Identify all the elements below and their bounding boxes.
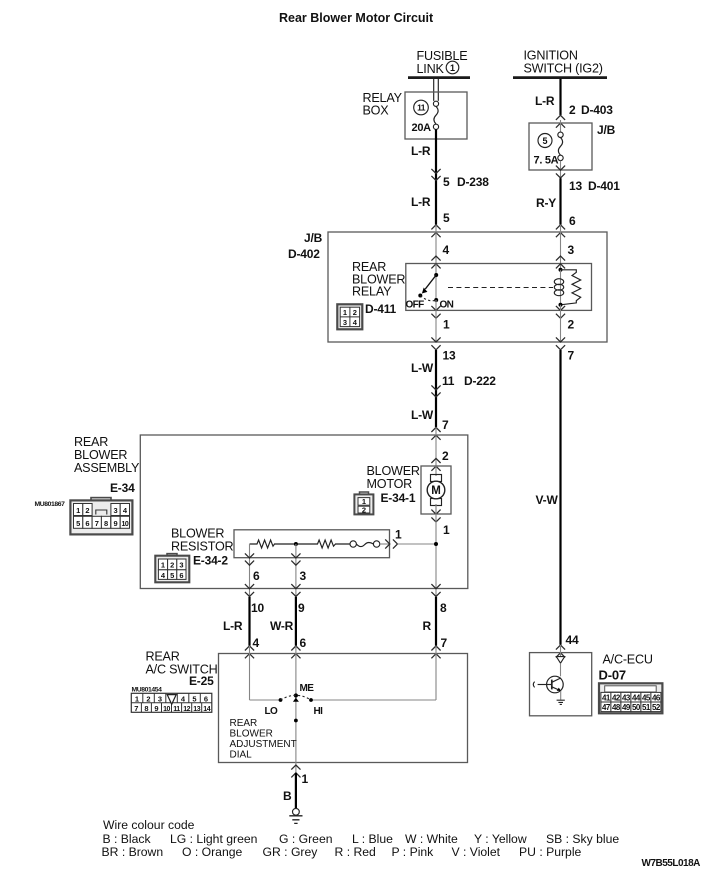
- wire resistor pin6 stub: [249, 544, 251, 597]
- svg-text:E-34-2: E-34-2: [193, 554, 228, 568]
- svg-text:D-401: D-401: [588, 179, 620, 193]
- wire R to A/C switch: [423, 597, 448, 650]
- thermal fuse: [350, 541, 390, 547]
- svg-text:IGNITION: IGNITION: [524, 49, 578, 63]
- wire L-R ignition to J/B: [535, 79, 613, 117]
- connector D-222 splice chevrons: [431, 385, 440, 397]
- svg-text:ON: ON: [440, 300, 454, 311]
- svg-text:6: 6: [253, 569, 260, 583]
- svg-text:RELAY: RELAY: [352, 285, 392, 299]
- svg-text:1: 1: [135, 694, 139, 703]
- svg-text:SB : Sky blue: SB : Sky blue: [546, 832, 619, 846]
- fuse 5 7.5A: [534, 120, 564, 178]
- svg-text:BOX: BOX: [363, 104, 390, 118]
- svg-text:BLOWER: BLOWER: [74, 448, 127, 462]
- A/C switch entry chevrons: [245, 646, 441, 658]
- relay box outline: [405, 92, 467, 139]
- relay REAR BLOWER RELAY box: [406, 264, 592, 311]
- A/C switch pin1 exit chevrons: [291, 765, 300, 777]
- svg-text:13: 13: [569, 179, 582, 193]
- svg-text:6: 6: [85, 519, 89, 528]
- svg-text:11: 11: [417, 103, 426, 113]
- svg-text:R : Red: R : Red: [335, 845, 376, 859]
- svg-text:7: 7: [95, 519, 99, 528]
- wire resistor output to motor wire: [395, 528, 438, 547]
- svg-text:1: 1: [302, 772, 309, 786]
- svg-text:4: 4: [253, 636, 260, 650]
- connector E-34-2 icon: [155, 554, 189, 583]
- svg-text:9: 9: [114, 519, 118, 528]
- svg-text:10: 10: [122, 521, 129, 528]
- svg-text:L : Blue: L : Blue: [352, 832, 393, 846]
- connector D-238 splice chevrons: [431, 169, 440, 181]
- svg-text:V : Violet: V : Violet: [452, 845, 501, 859]
- svg-text:3: 3: [114, 506, 118, 515]
- svg-text:2: 2: [146, 694, 150, 703]
- svg-text:R-Y: R-Y: [536, 196, 556, 210]
- svg-text:12: 12: [183, 706, 190, 713]
- pin 6 entry chevrons: [556, 225, 565, 237]
- connector D-411 icon: [337, 304, 362, 329]
- svg-text:1: 1: [161, 561, 165, 570]
- svg-text:L-R: L-R: [535, 94, 555, 108]
- svg-text:6: 6: [300, 636, 307, 650]
- assembly exit chevrons pin10 pin9 pin8: [245, 584, 441, 596]
- svg-text:2: 2: [85, 506, 89, 515]
- node REAR BLOWER ADJUSTMENT DIAL: [230, 718, 297, 761]
- connector D-07 icon: [599, 683, 662, 713]
- svg-text:44: 44: [632, 693, 641, 702]
- svg-text:OFF: OFF: [406, 300, 425, 311]
- node RELAY BOX label: [363, 91, 403, 118]
- svg-text:PU : Purple: PU : Purple: [519, 845, 582, 859]
- svg-text:2: 2: [569, 103, 576, 117]
- svg-text:Rear Blower Motor Circuit: Rear Blower Motor Circuit: [279, 11, 434, 25]
- pin 5 entry chevrons: [431, 225, 440, 237]
- svg-text:4: 4: [443, 243, 450, 257]
- svg-text:MU801454: MU801454: [132, 687, 163, 694]
- svg-text:5: 5: [76, 519, 80, 528]
- switch LO ME HI contacts: [265, 683, 324, 722]
- svg-text:Y : Yellow: Y : Yellow: [474, 832, 527, 846]
- motor exit chevrons: [431, 510, 440, 522]
- wire resistor pin3 stub: [294, 542, 298, 597]
- relay coil: [554, 268, 580, 307]
- connector E-25 icon: [131, 693, 212, 713]
- svg-text:E-34-1: E-34-1: [381, 491, 416, 505]
- svg-text:7: 7: [134, 704, 138, 713]
- svg-text:R: R: [423, 619, 432, 633]
- svg-text:2: 2: [362, 505, 366, 514]
- svg-text:L-R: L-R: [411, 144, 431, 158]
- svg-text:6: 6: [569, 214, 576, 228]
- svg-text:10: 10: [163, 706, 170, 713]
- svg-text:BLOWER: BLOWER: [171, 527, 224, 541]
- svg-text:P : Pink: P : Pink: [392, 845, 435, 859]
- motor entry chevrons: [431, 458, 440, 470]
- svg-text:5: 5: [192, 694, 196, 703]
- fuse 11 20A: [412, 100, 439, 134]
- svg-text:G : Green: G : Green: [279, 832, 333, 846]
- svg-text:REAR: REAR: [74, 435, 108, 449]
- wire fusible link double-line: [434, 79, 439, 101]
- resistor output pin1 chevrons: [385, 539, 397, 548]
- svg-text:L-W: L-W: [411, 361, 434, 375]
- resistor R1: [250, 540, 296, 548]
- svg-text:6: 6: [179, 571, 183, 580]
- svg-text:1: 1: [76, 506, 80, 515]
- svg-text:ADJUSTMENT: ADJUSTMENT: [230, 739, 297, 750]
- svg-text:3: 3: [343, 318, 347, 327]
- J/B pin7 exit chevrons: [556, 337, 565, 349]
- svg-text:HI: HI: [314, 706, 324, 717]
- svg-text:O : Orange: O : Orange: [182, 845, 243, 859]
- svg-text:REAR: REAR: [146, 650, 180, 664]
- svg-text:B: B: [283, 789, 292, 803]
- svg-text:1: 1: [443, 523, 450, 537]
- svg-text:E-34: E-34: [110, 481, 135, 495]
- resistor pin3 exit chevrons: [291, 553, 300, 565]
- svg-text:M: M: [431, 485, 441, 497]
- svg-text:13: 13: [193, 706, 200, 713]
- svg-text:FUSIBLE: FUSIBLE: [417, 49, 468, 63]
- svg-text:A/C-ECU: A/C-ECU: [603, 653, 653, 667]
- wire R-Y: [536, 178, 620, 228]
- svg-text:8: 8: [440, 601, 447, 615]
- svg-text:BR : Brown: BR : Brown: [102, 845, 164, 859]
- svg-text:14: 14: [203, 706, 210, 713]
- svg-text:9: 9: [298, 601, 305, 615]
- blower motor M1: [367, 464, 452, 514]
- svg-text:5: 5: [443, 211, 450, 225]
- svg-text:5: 5: [170, 571, 174, 580]
- svg-text:44: 44: [566, 633, 579, 647]
- relay pin2 exit chevrons: [556, 306, 565, 318]
- svg-text:1: 1: [443, 318, 450, 332]
- svg-text:41: 41: [602, 693, 611, 702]
- wire colour code: [102, 818, 620, 859]
- svg-text:42: 42: [612, 693, 621, 702]
- node IGNITION SWITCH (IG2): [513, 49, 607, 78]
- svg-text:D-238: D-238: [457, 175, 489, 189]
- svg-text:20A: 20A: [412, 122, 432, 134]
- REAR BLOWER ASSEMBLY box: [140, 435, 468, 589]
- svg-text:GR : Grey: GR : Grey: [263, 845, 319, 859]
- resistor R2: [296, 540, 350, 548]
- svg-text:49: 49: [622, 703, 631, 712]
- svg-text:11: 11: [442, 374, 455, 388]
- svg-text:3: 3: [158, 694, 162, 703]
- svg-text:ASSEMBLY: ASSEMBLY: [74, 461, 140, 475]
- svg-text:MU801867: MU801867: [35, 501, 66, 508]
- svg-text:E-25: E-25: [189, 674, 214, 688]
- connector D-403 entry chevrons: [556, 115, 565, 127]
- svg-text:L-R: L-R: [223, 619, 243, 633]
- wire L-R from relay box to J/B D-402: [411, 129, 489, 225]
- wire pin3 inside J/B: [561, 225, 575, 270]
- svg-text:2: 2: [170, 561, 174, 570]
- svg-text:51: 51: [642, 703, 651, 712]
- svg-text:L-W: L-W: [411, 408, 434, 422]
- svg-text:D-411: D-411: [365, 302, 397, 316]
- svg-text:11: 11: [173, 706, 180, 713]
- wire to blower motor: [436, 427, 449, 466]
- A/C-ECU entry chevrons pin44: [556, 645, 565, 657]
- svg-text:D-403: D-403: [581, 103, 613, 117]
- svg-text:SWITCH (IG2): SWITCH (IG2): [524, 62, 603, 76]
- svg-text:3: 3: [179, 561, 183, 570]
- svg-text:7. 5A: 7. 5A: [534, 155, 559, 167]
- svg-text:8: 8: [144, 704, 148, 713]
- wire motor pin1 down: [436, 505, 450, 597]
- wire relay pin1 to J/B pin13: [436, 300, 450, 342]
- J/B pin13 exit chevrons: [431, 337, 440, 349]
- A/C-ECU box: [530, 653, 592, 716]
- svg-text:LINK: LINK: [417, 62, 445, 76]
- svg-text:2: 2: [568, 318, 575, 332]
- svg-text:5: 5: [443, 175, 450, 189]
- svg-text:J/B: J/B: [304, 231, 323, 245]
- svg-text:Wire colour code: Wire colour code: [103, 818, 195, 832]
- wire W-R to A/C switch: [270, 597, 307, 650]
- svg-text:W : White: W : White: [405, 832, 458, 846]
- svg-text:1: 1: [343, 308, 347, 317]
- switch wires inside A/C switch: [250, 646, 437, 773]
- svg-text:MOTOR: MOTOR: [367, 477, 413, 491]
- svg-text:7: 7: [568, 349, 575, 363]
- blower resistor box: [234, 530, 390, 558]
- svg-text:7: 7: [442, 418, 449, 432]
- svg-text:2: 2: [353, 308, 357, 317]
- svg-text:3: 3: [568, 243, 575, 257]
- svg-text:BLOWER: BLOWER: [367, 464, 420, 478]
- relay mechanical dashed link: [448, 287, 553, 289]
- resistor pin6 exit chevrons: [245, 553, 254, 565]
- svg-text:2: 2: [442, 449, 449, 463]
- wire V-W relay pin2 to A/C-ECU: [536, 349, 579, 648]
- svg-text:W-R: W-R: [270, 619, 294, 633]
- svg-text:1: 1: [450, 63, 455, 73]
- svg-text:13: 13: [443, 349, 456, 363]
- svg-text:5: 5: [542, 136, 547, 146]
- svg-text:LG : Light green: LG : Light green: [170, 832, 257, 846]
- svg-text:6: 6: [204, 694, 208, 703]
- svg-text:L-R: L-R: [411, 195, 431, 209]
- transistor Q1 inside ECU: [533, 645, 565, 704]
- svg-text:8: 8: [104, 519, 108, 528]
- svg-text:V-W: V-W: [536, 493, 559, 507]
- svg-text:10: 10: [251, 601, 264, 615]
- svg-text:7: 7: [441, 636, 448, 650]
- svg-text:1: 1: [395, 528, 402, 542]
- svg-text:D-222: D-222: [464, 374, 496, 388]
- relay pin1 exit chevrons: [431, 306, 440, 318]
- svg-text:D-402: D-402: [288, 247, 320, 261]
- connector E-34 icon: [70, 498, 132, 535]
- assembly pin2 entry chevrons: [431, 427, 440, 439]
- svg-text:ME: ME: [300, 683, 315, 694]
- connector D-401 exit chevrons: [556, 166, 565, 178]
- svg-text:B : Black: B : Black: [103, 832, 152, 846]
- connector E-34-1 icon: [354, 492, 373, 514]
- J/B fuse box: [529, 123, 592, 170]
- svg-text:45: 45: [642, 693, 651, 702]
- svg-text:52: 52: [652, 703, 661, 712]
- relay inner entry chevrons pin4: [431, 256, 440, 268]
- svg-text:BLOWER: BLOWER: [230, 729, 273, 740]
- svg-text:48: 48: [612, 703, 621, 712]
- relay inner entry chevrons pin3: [556, 256, 565, 268]
- svg-text:RESISTOR: RESISTOR: [171, 540, 234, 554]
- node FUSIBLE LINK 1: [408, 49, 470, 78]
- REAR A/C SWITCH box: [219, 654, 468, 763]
- wire L-R to A/C switch: [223, 597, 264, 650]
- svg-text:J/B: J/B: [597, 123, 616, 137]
- ground: [289, 808, 302, 823]
- svg-text:50: 50: [632, 703, 641, 712]
- wire pin4 inside J/B: [436, 225, 450, 275]
- J/B D-402 box: [328, 232, 607, 342]
- relay switch: [406, 264, 454, 311]
- svg-text:9: 9: [154, 704, 158, 713]
- wire relay pin2 to J/B pin7: [561, 305, 575, 342]
- svg-text:W7B55L018A: W7B55L018A: [642, 858, 701, 869]
- svg-text:46: 46: [652, 693, 661, 702]
- svg-text:DIAL: DIAL: [230, 750, 253, 761]
- svg-text:REAR: REAR: [230, 718, 258, 729]
- wire L-W to blower assembly: [411, 349, 496, 433]
- svg-text:LO: LO: [265, 706, 279, 717]
- svg-text:3: 3: [300, 569, 307, 583]
- wire B to ground: [283, 772, 309, 808]
- svg-text:D-07: D-07: [599, 668, 626, 683]
- svg-text:47: 47: [602, 703, 611, 712]
- svg-text:43: 43: [622, 693, 631, 702]
